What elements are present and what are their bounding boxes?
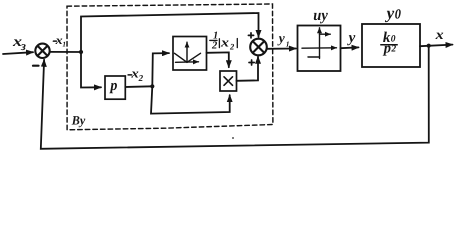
block p (differentiator) bbox=[105, 76, 125, 99]
svg-text:p: p bbox=[382, 40, 391, 56]
wire N2 up to abs block bbox=[152, 53, 169, 86]
abs V-curve right branch bbox=[187, 53, 201, 62]
wire N2 down around to multiplier bottom bbox=[151, 86, 230, 113]
svg-text:y: y bbox=[277, 31, 286, 46]
relay x-axis bbox=[302, 47, 337, 49]
abs block y-axis bbox=[186, 42, 188, 62]
node N1 junction bbox=[79, 50, 83, 54]
svg-text:p: p bbox=[109, 78, 118, 94]
svg-text:2: 2 bbox=[229, 41, 235, 51]
svg-text:y: y bbox=[347, 30, 356, 46]
wire p to node N2 bbox=[125, 85, 152, 88]
svg-text:з: з bbox=[20, 39, 26, 53]
minus sign at S1 bbox=[33, 65, 39, 67]
relay upper output level bbox=[320, 33, 331, 35]
svg-text:Ву: Ву bbox=[71, 114, 86, 128]
node N3 junction bbox=[427, 44, 431, 48]
svg-text:1: 1 bbox=[62, 40, 66, 48]
node N2 junction bbox=[150, 84, 154, 88]
wire N1 up and across to summer S2 top bbox=[81, 13, 259, 52]
plus sign at S2 bottom input bbox=[249, 60, 254, 65]
abs V-curve left branch bbox=[175, 53, 188, 62]
block ABS (absolute value characteristic) bbox=[173, 37, 207, 71]
wire input x3 to summer S1 bbox=[3, 52, 33, 54]
svg-text:0: 0 bbox=[395, 8, 401, 23]
svg-text:2: 2 bbox=[211, 40, 218, 51]
svg-text:1: 1 bbox=[286, 39, 290, 48]
svg-text:2: 2 bbox=[390, 45, 396, 55]
svg-text:0: 0 bbox=[391, 35, 396, 45]
wire N1 down to block p bbox=[81, 52, 101, 88]
dashed box VU bbox=[67, 4, 273, 130]
wire S1 to node N1 bbox=[50, 51, 81, 53]
wire feedback from N3 to S1 bottom bbox=[41, 46, 429, 149]
svg-text:у: у bbox=[385, 4, 395, 23]
abs block x-axis bbox=[176, 61, 199, 64]
label 1/2 |x2| bbox=[211, 30, 235, 51]
block IU (relay element) bbox=[298, 26, 341, 72]
wire S2 to block IU, label y1 bbox=[267, 48, 296, 50]
summing junction S1 bbox=[35, 44, 49, 58]
node -x2 label bbox=[128, 74, 132, 76]
node x3 input label bbox=[12, 34, 26, 53]
svg-text:2: 2 bbox=[138, 73, 144, 83]
summing junction S2 bbox=[250, 39, 267, 56]
node -x1 label bbox=[53, 40, 56, 42]
wire abs to multiplier top bbox=[207, 52, 229, 67]
wire IU to UO, label y bbox=[341, 46, 359, 49]
relay lower output level bbox=[308, 56, 320, 58]
relay vertical jump / y-axis bbox=[319, 28, 321, 59]
block MULT (multiplier) bbox=[220, 71, 237, 91]
plus sign at S2 top input bbox=[248, 33, 253, 38]
svg-text:x: x bbox=[220, 35, 230, 50]
block UO (k0/p^2) bbox=[362, 24, 420, 67]
ink speck bbox=[232, 137, 234, 139]
wire multiplier to summer S2 bottom bbox=[237, 57, 259, 81]
svg-text:x: x bbox=[434, 28, 443, 43]
svg-text:иу: иу bbox=[313, 7, 328, 24]
wire UO to output x bbox=[420, 45, 453, 47]
